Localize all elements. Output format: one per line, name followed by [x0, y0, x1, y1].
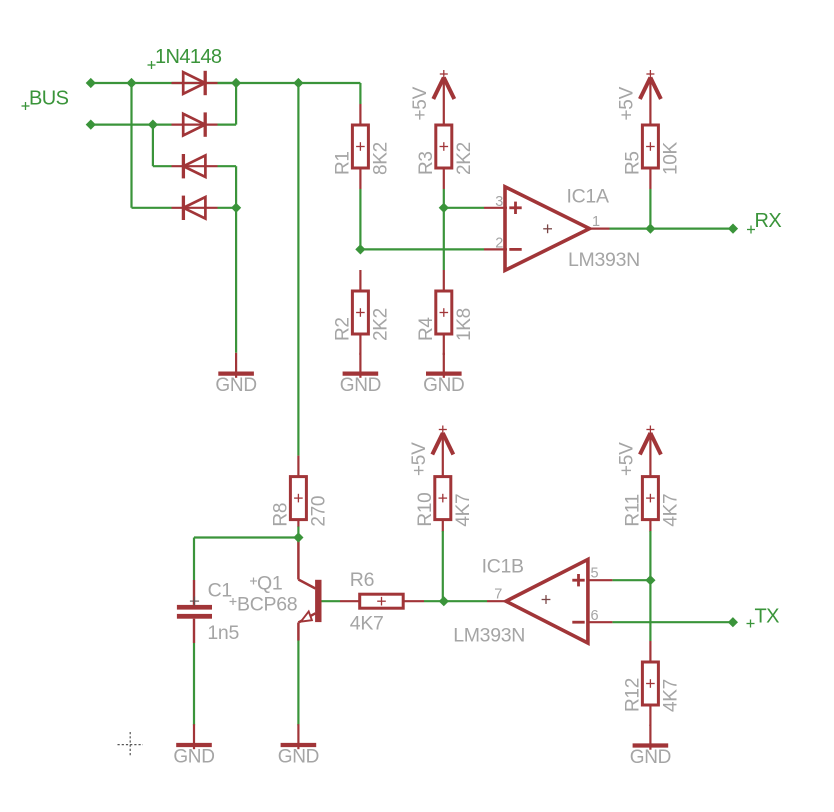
svg-text:1n5: 1n5	[207, 622, 239, 644]
wire pin5 to junction	[612, 579, 650, 581]
svg-text:+5V: +5V	[409, 442, 430, 476]
resistor R10 4K7	[415, 477, 474, 532]
resistor R8 270	[270, 456, 329, 527]
wire R8 junction branch	[297, 527, 299, 538]
junction R3 R4 pin3	[439, 203, 449, 213]
junction R8 C1 Q1	[293, 532, 303, 542]
svg-text:10K: 10K	[660, 141, 681, 175]
ground under Q1	[278, 724, 319, 767]
junction D1 left	[126, 78, 136, 88]
wire D4 out	[218, 207, 237, 209]
op-amp IC1A LM393N	[484, 186, 640, 272]
svg-text:4K7: 4K7	[453, 494, 474, 527]
svg-text:R6: R6	[350, 569, 374, 591]
svg-text:IC1B: IC1B	[482, 556, 524, 578]
svg-text:R8: R8	[270, 503, 291, 527]
net label 1N4148	[148, 46, 222, 69]
wire D1 out	[218, 82, 237, 84]
diode D2 1N4148	[172, 112, 218, 136]
svg-text:R10: R10	[415, 493, 436, 527]
net label RX	[747, 210, 781, 234]
svg-text:3: 3	[495, 194, 503, 210]
capacitor C1 1n5	[177, 580, 240, 645]
svg-text:R3: R3	[416, 151, 437, 175]
wire R1 top drop	[359, 83, 361, 104]
resistor R5 10K	[622, 125, 681, 189]
svg-text:5: 5	[591, 566, 599, 582]
transistor Q1 BCP68	[230, 540, 322, 641]
node RX endpoint	[728, 224, 738, 234]
wire output row to RX	[610, 228, 734, 230]
wire pin3 row	[444, 207, 484, 209]
wire pin6 to TX	[612, 621, 733, 623]
svg-text:2K2: 2K2	[454, 142, 475, 175]
junction D1 right	[231, 78, 241, 88]
diode D4 1N4148	[172, 196, 218, 220]
wire D2 out	[218, 123, 237, 125]
resistor R3 2K2	[416, 125, 475, 189]
wire vertical D1-D2 right	[235, 83, 237, 125]
resistor R4 1K8	[416, 270, 475, 355]
svg-text:GND: GND	[423, 375, 464, 396]
svg-text:LM393N: LM393N	[453, 625, 525, 647]
junction R1 R2 pin2	[355, 244, 365, 254]
svg-text:TX: TX	[755, 606, 780, 628]
wire Q1 base to R6	[322, 600, 341, 602]
wire vertical D2-D3	[152, 125, 154, 167]
svg-text:7: 7	[494, 587, 502, 603]
wire main vertical to R8	[297, 83, 299, 456]
svg-text:GND: GND	[340, 375, 381, 396]
node bus2 endpoint	[86, 120, 96, 130]
svg-text:4K7: 4K7	[660, 679, 681, 712]
diode D3 1N4148	[172, 154, 218, 178]
op-amp IC1B LM393N	[453, 556, 612, 647]
resistor R6 4K7	[340, 569, 424, 635]
wire R5 to output node	[649, 189, 651, 229]
svg-text:C1: C1	[208, 580, 232, 602]
wire junction down to R12	[649, 580, 651, 641]
node bus1 endpoint	[86, 78, 96, 88]
wire R11 down to junction	[649, 531, 651, 580]
junction D2 left	[148, 120, 158, 130]
ground under C1	[173, 724, 214, 767]
svg-text:LM393N: LM393N	[568, 249, 640, 271]
svg-text:6: 6	[591, 608, 599, 624]
net label TX	[747, 606, 780, 628]
resistor R12 4K7	[622, 641, 681, 726]
wire junction to IC1B pin7	[444, 600, 487, 602]
svg-text:R11: R11	[622, 494, 643, 527]
junction R6 R10 pin7	[439, 596, 449, 606]
svg-text:+5V: +5V	[616, 442, 637, 476]
svg-text:RX: RX	[755, 210, 782, 232]
junction D4 right	[231, 203, 241, 213]
svg-text:BUS: BUS	[29, 88, 69, 110]
wire D4 row left	[132, 207, 172, 209]
svg-text:270: 270	[308, 496, 329, 527]
resistor R1 8K2	[332, 104, 391, 189]
node TX endpoint	[728, 617, 738, 627]
svg-text:R2: R2	[332, 317, 353, 341]
svg-text:4K7: 4K7	[350, 613, 384, 635]
svg-text:1N4148: 1N4148	[155, 46, 222, 68]
ground under diode chain	[215, 353, 256, 396]
svg-text:2: 2	[495, 236, 503, 252]
resistor R11 4K7	[622, 477, 681, 532]
sheet origin crosshair	[118, 732, 144, 757]
wire Q1 emitter to ground	[297, 640, 299, 725]
ground under R12	[630, 725, 671, 768]
ground under R4	[423, 353, 464, 396]
wire pin2 row	[360, 248, 484, 250]
svg-text:GND: GND	[630, 747, 671, 768]
+5V supply above R11	[616, 426, 661, 477]
svg-text:GND: GND	[173, 747, 214, 768]
wire D4 node to ground	[235, 208, 237, 353]
junction R5 output	[645, 224, 655, 234]
junction main vertical top	[293, 78, 303, 88]
wire bus row 1 horizontal	[91, 82, 361, 84]
wire D3 row left	[153, 165, 172, 167]
svg-text:2K2: 2K2	[370, 308, 391, 341]
diode D1 1N4148	[172, 71, 218, 95]
+5V supply above R3	[410, 70, 455, 125]
net label BUS	[22, 88, 69, 111]
svg-text:IC1A: IC1A	[567, 186, 609, 208]
resistor R2 2K2	[332, 270, 391, 355]
+5V supply above R10	[409, 426, 454, 477]
svg-text:GND: GND	[215, 375, 256, 396]
wire C1 to ground	[193, 643, 195, 725]
ground under R2	[340, 353, 381, 396]
wire R6 to junction	[424, 600, 444, 602]
svg-text:R5: R5	[622, 151, 643, 175]
svg-text:1: 1	[592, 214, 600, 230]
svg-text:4K7: 4K7	[660, 494, 681, 527]
wire R1 to node pin2	[359, 189, 361, 249]
wire junction to C1 horizontal	[194, 536, 298, 538]
+5V supply above R5	[616, 70, 661, 125]
wire vertical D3-D4 right	[235, 166, 237, 208]
svg-text:BCP68: BCP68	[237, 594, 297, 616]
wire node pin3 down to R4	[443, 208, 445, 270]
wire D3 out	[218, 165, 237, 167]
wire bus row 2 horizontal	[91, 123, 172, 125]
svg-text:R12: R12	[622, 678, 643, 712]
svg-text:8K2: 8K2	[370, 142, 391, 175]
wire R3 to node pin3	[443, 189, 445, 208]
svg-text:R1: R1	[332, 151, 353, 175]
svg-text:Q1: Q1	[257, 573, 282, 595]
wire R10 down to junction	[442, 531, 444, 601]
svg-text:GND: GND	[278, 747, 319, 768]
wire vertical D1-D4 left	[130, 83, 132, 208]
junction R11 pin5 R12	[645, 575, 655, 585]
svg-text:1K8: 1K8	[454, 308, 475, 341]
svg-text:R4: R4	[416, 317, 437, 341]
svg-text:+5V: +5V	[616, 86, 637, 120]
svg-text:+5V: +5V	[410, 86, 431, 120]
wire C1 vertical	[193, 538, 195, 581]
